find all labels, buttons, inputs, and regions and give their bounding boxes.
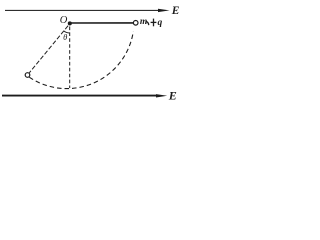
left ball (open circle)	[25, 73, 30, 78]
charge ball m,+q (open circle)	[133, 21, 138, 26]
ideographic comma	[147, 22, 149, 25]
pivot dot at O	[68, 21, 72, 25]
svg-text:m: m	[140, 17, 147, 27]
wire: top field line	[5, 9, 160, 11]
wire: dashed string position (slanted) from O to left ball	[29, 26, 68, 73]
svg-text:E: E	[171, 5, 180, 17]
wire: dashed trajectory arc	[29, 32, 133, 89]
svg-text:θ: θ	[63, 32, 67, 42]
plus sign	[151, 21, 157, 23]
wire: bottom field line	[2, 95, 159, 97]
angle arc theta	[64, 31, 70, 33]
wire: horizontal rod from O to charge	[70, 22, 133, 24]
svg-text:O: O	[60, 15, 68, 26]
wire: dashed vertical reference line from O	[69, 27, 71, 89]
bottom field line arrowhead	[156, 94, 167, 97]
svg-text:q: q	[158, 18, 163, 28]
top field line arrowhead	[158, 9, 170, 12]
svg-text:E: E	[168, 88, 177, 102]
